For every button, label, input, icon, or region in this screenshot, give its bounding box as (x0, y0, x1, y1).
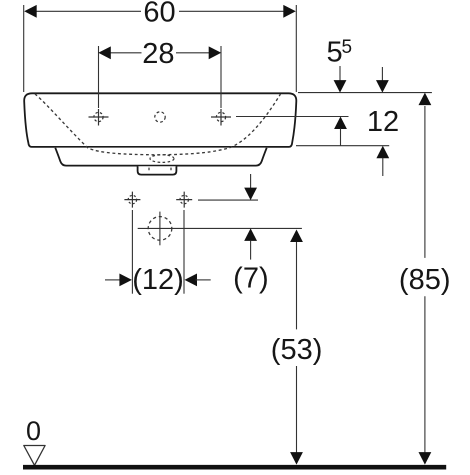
dimension 28 line (108, 52, 211, 54)
dimension 12 lower arrow (up) (376, 146, 389, 159)
dimension 7 lower arrow (up) (244, 228, 257, 241)
fixing bolt hole right (cross mark) (176, 192, 192, 208)
drain dashed ellipse (150, 155, 174, 163)
dimension 28 arrow left (98, 46, 111, 59)
trap dashed circle (148, 217, 172, 241)
rim bottom reference line (296, 145, 389, 147)
dimension (53) line with arrows (296, 241, 298, 454)
dimension 60 arrow left (24, 5, 37, 18)
dimension 60 line (34, 10, 286, 12)
dimension (85) line with arrows (424, 106, 426, 454)
svg-text:(53): (53) (271, 334, 323, 366)
bolt row reference line (198, 199, 258, 201)
fixing bolt hole left (cross mark) (124, 192, 140, 208)
dimension 28 extension line left (98, 46, 100, 108)
datum triangle (24, 446, 45, 466)
dimension 5.5 lower arrow (up) (334, 117, 347, 130)
faucet hole center (dashed circle) (155, 112, 165, 122)
svg-text:12: 12 (367, 106, 399, 138)
dimension 12 upper arrow (down) (381, 67, 383, 82)
faucet hole left (cross mark) (89, 109, 109, 126)
dimension (12) extension line left (131, 210, 133, 294)
basin lower tier (55, 148, 266, 166)
svg-text:5: 5 (342, 37, 353, 58)
trap horizontal centerline / reference line (138, 227, 302, 229)
dimension (12) left arrow (pointing right) (105, 279, 121, 281)
top reference line (basin top extended) (298, 92, 432, 94)
drain tab (138, 166, 177, 174)
basin rim outline (24, 93, 296, 147)
svg-text:5: 5 (327, 37, 343, 69)
faucet hole right (cross mark) (211, 109, 231, 126)
dimension 60 arrow right (283, 5, 296, 18)
svg-text:(85): (85) (399, 264, 451, 296)
svg-text:0: 0 (26, 416, 41, 446)
dimension 28 extension line right (220, 46, 222, 108)
faucet row reference line (236, 116, 349, 118)
svg-text:28: 28 (142, 38, 174, 70)
floor line (23, 465, 446, 470)
svg-text:60: 60 (143, 0, 175, 29)
dimension 5.5 upper arrow (down) (339, 66, 341, 82)
dashed bowl hidden line (35, 94, 281, 155)
dimension 60 extension line right (295, 5, 297, 92)
trap vertical centerline (159, 212, 161, 246)
dimension 60 extension line left (23, 5, 25, 92)
svg-text:(7): (7) (233, 263, 268, 295)
dimension 7 upper arrow (down) (250, 174, 252, 189)
dimension (12) right arrow (pointing left) (185, 274, 198, 287)
svg-text:(12): (12) (132, 264, 184, 296)
dimension (12) extension line right (183, 210, 185, 294)
dimension 28 arrow right (209, 46, 222, 59)
